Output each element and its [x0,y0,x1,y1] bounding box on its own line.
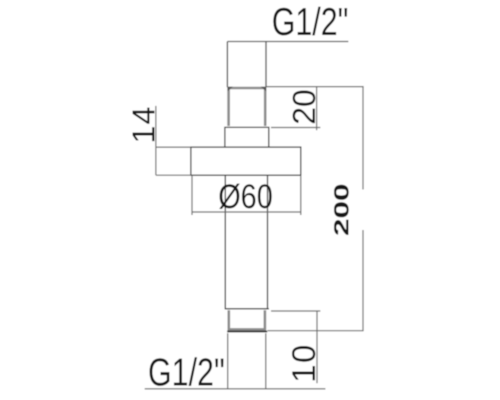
bottom dim extension line right [265,333,267,389]
bottom thread dark bottom edge [227,330,267,332]
dim 10 text [285,343,322,383]
label G1/2" bottom [148,352,225,395]
dim 20 extension line top (shared with dim 200) [266,86,363,88]
svg-text:G1/2": G1/2" [148,352,225,395]
svg-text:14: 14 [126,106,162,144]
dim 20 dimension line [316,87,318,131]
dim 10 extension line top [271,310,320,312]
top thread corner wedge right [261,87,266,92]
top pipe left wall [226,42,228,88]
dim 200 dimension line lower segment [362,230,364,331]
dim 14 dimension line [155,106,157,175]
dim 14 extension line bottom [156,174,190,176]
connector body [225,127,269,147]
dim 200 dimension line upper segment [362,87,364,190]
pipe bottom edge [225,308,269,310]
top thread thick outline [229,88,266,126]
pipe left wall below flange [224,175,226,309]
dim 20 extension line bottom [271,127,320,129]
bottom dim extension line left [227,333,229,389]
top pipe right wall [265,42,267,88]
svg-text:20: 20 [286,89,322,125]
dim 200 text [329,183,353,236]
dim 14 text [126,106,162,144]
top thread corner wedge left [228,87,233,92]
dim 20 text [286,89,322,125]
dim O60 extension line left [191,176,193,215]
flange [191,147,301,175]
svg-text:10: 10 [285,343,322,383]
svg-text:G1/2": G1/2" [272,1,349,44]
dim 200 extension line bottom [268,330,364,332]
svg-text:Ø60: Ø60 [218,178,273,216]
svg-text:200: 200 [329,183,353,236]
pipe right wall below flange [267,175,269,309]
dim 10 dimension line [316,311,318,383]
label G1/2" top [272,1,349,44]
dim O60 extension line right [300,176,302,215]
dim O60 text [218,178,273,216]
top leader line / pipe top edge [227,41,348,43]
dim 14 extension line top [156,146,190,148]
dim O60 dimension line [192,211,301,213]
bottom dimension line [145,388,326,390]
bottom thread thick outline [229,310,265,329]
